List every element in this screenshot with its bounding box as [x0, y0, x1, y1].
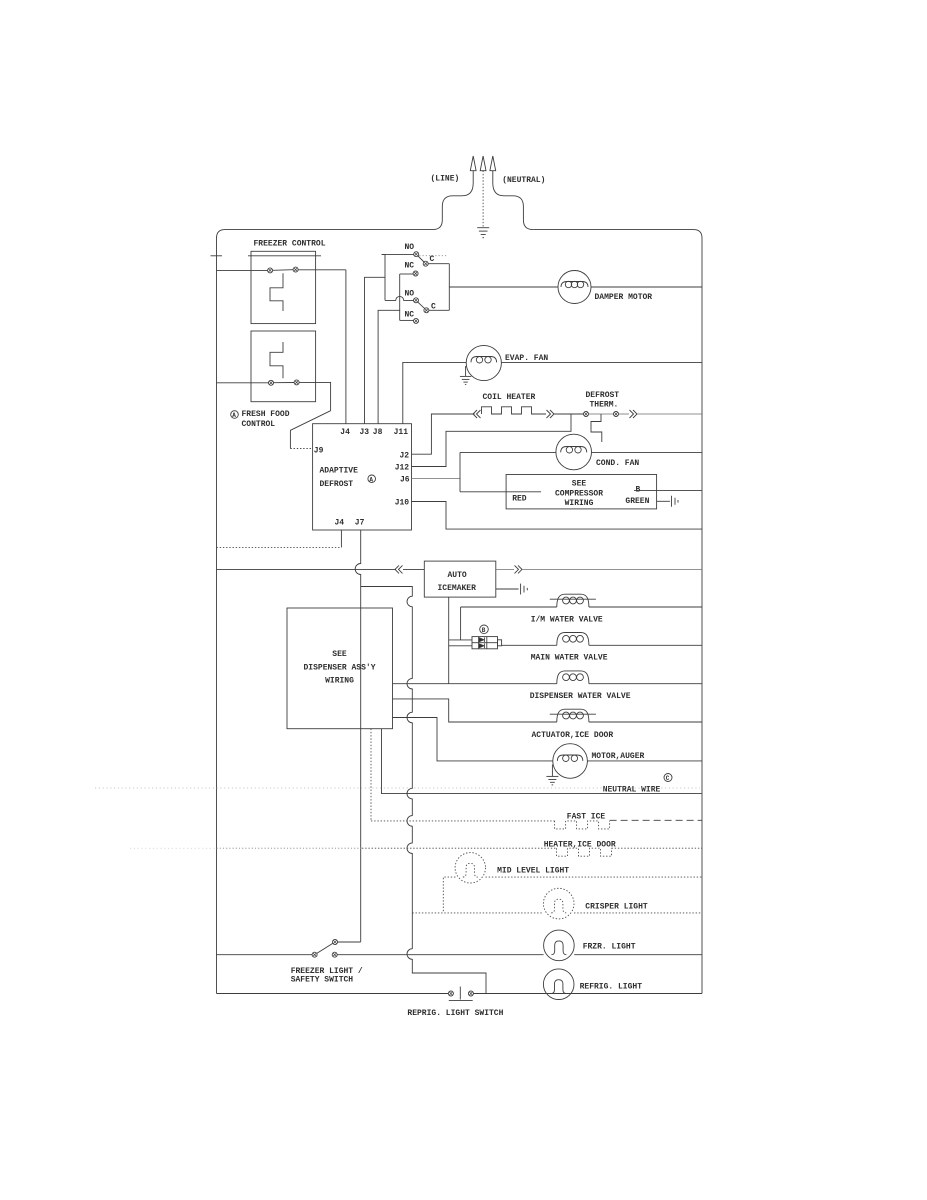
dispenser assembly box — [287, 608, 393, 729]
refrig light switch plunger — [449, 987, 473, 1001]
wire: dispenser valve to right border — [589, 683, 702, 685]
wire: actuator to right border — [589, 721, 702, 723]
damper switch 2 NC contact — [414, 318, 419, 323]
wire: B terminal to right border — [634, 489, 702, 491]
wire: J10 to bottom bus — [412, 502, 703, 530]
defrost thermostat contact left — [584, 412, 589, 417]
circled C neutral — [664, 774, 672, 783]
svg-text:A: A — [369, 477, 373, 484]
wire: switch block feed vertical x=385 — [382, 255, 385, 301]
wire segment after chevrons to border — [638, 413, 703, 415]
svg-text:J3: J3 — [360, 428, 370, 437]
defrost thermostat contact right — [614, 412, 619, 417]
wire: mid level light dotted to right border — [486, 876, 703, 878]
svg-text:DISPENSER ASS'Y: DISPENSER ASS'Y — [304, 664, 376, 673]
svg-text:(LINE): (LINE) — [431, 175, 460, 184]
svg-text:J12: J12 — [395, 463, 410, 472]
wire: diode output to main valve line — [502, 644, 557, 646]
svg-text:FRZR. LIGHT: FRZR. LIGHT — [583, 943, 636, 952]
wire: freezer lamp to right border — [574, 954, 702, 956]
wire: NC2 lead — [400, 319, 414, 321]
wire: chevrons to icemaker box — [403, 568, 424, 570]
wire: C1 to right bus — [428, 263, 449, 265]
green chassis ground — [672, 496, 679, 507]
actuator ice door coil L4 — [550, 709, 596, 722]
wire: defrost thermostat to right border — [619, 413, 630, 415]
defrost out connector chevrons — [630, 410, 638, 418]
freezer light safety switch lower left contact — [312, 952, 317, 957]
wire: switch to freezer light lamp — [337, 954, 543, 956]
refrig light switch right contact — [468, 991, 473, 996]
freezer light safety switch arm — [317, 943, 333, 953]
wire: main valve to right border — [589, 644, 702, 646]
wire: motor auger to right border — [587, 760, 702, 762]
wire: crisper dotted to right border — [574, 912, 702, 914]
svg-text:J10: J10 — [395, 498, 410, 507]
mid level light lamp dotted — [455, 853, 485, 883]
wire: junction to RED compressor lead — [460, 491, 541, 493]
power plug: ground prong arrow — [480, 156, 486, 228]
wire: J11 riser to evap fan line — [403, 362, 466, 423]
outer border top-left segment — [217, 230, 433, 994]
outer border bottom wire (refrig light circuit) — [217, 993, 703, 995]
damper switch 1 NC contact — [413, 271, 418, 276]
svg-text:A: A — [232, 412, 236, 419]
svg-text:ICEMAKER: ICEMAKER — [438, 584, 477, 593]
svg-text:J8: J8 — [373, 428, 383, 437]
svg-text:FREEZER CONTROL: FREEZER CONTROL — [254, 239, 326, 248]
svg-text:J2: J2 — [400, 451, 410, 460]
damper switch 1 C contact — [423, 261, 428, 266]
outer border top-right segment — [533, 230, 702, 994]
coil heater left connector chevrons — [473, 410, 481, 418]
wire: heater ice door dotted to right border — [612, 847, 703, 849]
dispenser water valve coil L3 — [557, 671, 589, 684]
svg-text:WIRING: WIRING — [565, 499, 594, 508]
svg-text:CONTROL: CONTROL — [242, 420, 276, 429]
wire: mid level light dotted feed — [443, 877, 455, 913]
auto icemaker box — [424, 561, 496, 597]
wire: fast ice dotted feed — [371, 820, 555, 822]
svg-text:COIL HEATER: COIL HEATER — [483, 393, 536, 402]
wire: J6 lead — [412, 478, 461, 480]
wire: fast ice dashed to right border — [610, 819, 702, 821]
svg-text:DAMPER MOTOR: DAMPER MOTOR — [595, 293, 653, 302]
wire: damper motor to right border — [591, 286, 702, 288]
wire: diode bottom feed — [449, 645, 472, 647]
tick on left border — [211, 255, 223, 257]
svg-text:J7: J7 — [355, 519, 365, 528]
wire: crisper dotted line — [412, 912, 543, 914]
wire: C2 to right bus — [429, 309, 449, 311]
circled A fresh food — [231, 411, 239, 420]
I/M water valve coil L1 — [550, 594, 596, 607]
freezer light safety switch lower right contact — [332, 952, 337, 957]
wire: J12 to heater output junction — [412, 414, 572, 467]
freezer control switch arm — [273, 269, 294, 272]
power plug: neutral prong arrow — [490, 156, 533, 230]
wire: icemaker bottom pin down to dispenser valve line — [448, 597, 450, 684]
wire: left border to fresh food switch — [217, 382, 269, 384]
wire: GREEN lead — [657, 500, 670, 502]
circled B diode — [480, 625, 489, 634]
svg-text:THERM.: THERM. — [590, 400, 619, 409]
svg-text:C: C — [430, 255, 435, 264]
svg-text:SEE: SEE — [572, 479, 587, 488]
svg-text:C: C — [666, 775, 670, 782]
svg-text:SAFETY SWITCH: SAFETY SWITCH — [291, 976, 354, 985]
damper switch 2 C contact — [424, 308, 429, 313]
svg-text:FRESH FOOD: FRESH FOOD — [242, 410, 290, 419]
ground at evap fan — [460, 366, 471, 384]
crisper light lamp dotted — [543, 888, 574, 919]
svg-text:AUTO: AUTO — [448, 571, 467, 580]
svg-text:B: B — [482, 627, 486, 634]
svg-text:J4: J4 — [335, 519, 345, 528]
svg-text:REFRIG. LIGHT: REFRIG. LIGHT — [580, 983, 643, 992]
main water valve coil L2 — [557, 633, 589, 646]
icemaker left connector chevrons — [395, 565, 403, 573]
wire: heater ice door dotted feed from left border — [217, 847, 363, 849]
wire: dispenser box output to actuator corner — [393, 699, 557, 722]
wire: I/M water valve line left — [461, 606, 557, 608]
wire: J3 riser up from adaptive defrost — [365, 277, 386, 423]
svg-text:NC: NC — [405, 262, 415, 271]
svg-text:(NEUTRAL): (NEUTRAL) — [502, 176, 545, 185]
wire: icemaker right output — [496, 568, 514, 570]
wire: freezer switch to J4 riser — [298, 269, 346, 271]
circled A adaptive defrost — [368, 475, 376, 484]
svg-text:B: B — [636, 485, 641, 494]
svg-text:REPRIG. LIGHT SWITCH: REPRIG. LIGHT SWITCH — [407, 1009, 503, 1018]
fresh food switch contact right — [294, 380, 299, 385]
wire: dispenser water valve line left — [393, 683, 557, 685]
damper switch 1 NO contact — [414, 252, 419, 257]
freezer light lamp — [544, 930, 575, 961]
compressor wiring box — [506, 475, 656, 509]
diode block D1 — [472, 637, 502, 649]
refrig light lamp — [543, 969, 574, 1000]
svg-text:HEATER,ICE DOOR: HEATER,ICE DOOR — [544, 840, 616, 849]
wire: left border to icemaker line — [217, 568, 397, 570]
fresh food switch arm — [274, 382, 295, 384]
wire: J8 riser and lead to NC link — [378, 310, 400, 423]
coil heater element — [482, 407, 547, 414]
wire: chevrons to right border — [523, 568, 703, 570]
svg-text:COND. FAN: COND. FAN — [596, 459, 639, 468]
freezer control box — [251, 251, 316, 323]
wire: feed to NO1 contact — [385, 253, 414, 255]
svg-text:I/M WATER VALVE: I/M WATER VALVE — [531, 616, 603, 625]
wire: NO2 feed with hop over NC link — [385, 296, 414, 300]
svg-text:C: C — [431, 303, 436, 312]
wire: dispenser box neutral output — [382, 729, 703, 794]
evap fan motor — [466, 345, 501, 380]
fresh food control box — [251, 331, 316, 402]
wire: I/M valve to right border — [589, 606, 702, 608]
svg-text:MID LEVEL LIGHT: MID LEVEL LIGHT — [497, 866, 569, 875]
wire: left border to freezer light switch — [217, 954, 313, 956]
diagonal wire to J9 — [290, 411, 330, 449]
svg-text:EVAP. FAN: EVAP. FAN — [505, 354, 548, 363]
svg-text:J4: J4 — [340, 428, 350, 437]
wire: icemaker ground lead — [496, 588, 519, 590]
svg-text:GREEN: GREEN — [625, 497, 649, 506]
wire: I/M valve branch to diode feed — [460, 607, 462, 640]
coil heater right connector chevrons — [547, 410, 555, 418]
faint dashed stub right of NO1 — [419, 255, 447, 257]
rail line through freezer control box — [248, 255, 321, 257]
svg-text:J9: J9 — [314, 446, 324, 455]
fresh food thermostat staircase — [270, 342, 283, 378]
freezer control thermostat staircase — [270, 273, 283, 311]
svg-text:COMPRESSOR: COMPRESSOR — [555, 489, 603, 498]
svg-text:MOTOR,AUGER: MOTOR,AUGER — [592, 752, 645, 761]
svg-text:CRISPER LIGHT: CRISPER LIGHT — [585, 903, 648, 912]
svg-text:J11: J11 — [394, 428, 409, 437]
heater ice door element dashed — [557, 848, 612, 856]
wire: J9 dotted lead — [290, 448, 312, 450]
defrost thermostat sensing staircase — [591, 414, 602, 442]
svg-text:DISPENSER WATER VALVE: DISPENSER WATER VALVE — [530, 692, 631, 701]
wire: J4 bottom pin to left border — [340, 530, 342, 547]
motor auger M4 — [553, 744, 588, 779]
wire: cond fan to right border — [592, 451, 703, 453]
svg-text:NO: NO — [405, 290, 415, 299]
scan fold artifact line lower — [130, 847, 217, 849]
ground at motor auger — [546, 765, 558, 785]
wire: upper contact to vertical — [338, 941, 361, 943]
wire: switch block right bus — [448, 264, 450, 311]
freezer control switch contact left — [268, 268, 273, 273]
svg-text:MAIN WATER VALVE: MAIN WATER VALVE — [531, 654, 608, 663]
wire: diode top feed — [449, 639, 472, 641]
wire: junction to cond fan — [460, 451, 556, 453]
earth ground symbol below plug — [477, 228, 489, 238]
scan fold artifact line upper — [95, 787, 700, 789]
svg-text:ADAPTIVE: ADAPTIVE — [320, 467, 359, 476]
svg-text:SEE: SEE — [332, 650, 347, 659]
freezer control switch contact right — [293, 267, 298, 272]
wire: J6 junction vertical — [459, 452, 461, 491]
icemaker right connector chevrons — [515, 565, 523, 573]
cond fan motor — [556, 434, 592, 470]
damper motor M1 — [558, 271, 591, 304]
svg-text:NEUTRAL WIRE: NEUTRAL WIRE — [603, 786, 661, 795]
wire: left border to freezer control switch — [217, 269, 268, 271]
fast ice heater element dashed — [555, 821, 610, 829]
svg-text:NC: NC — [405, 310, 415, 319]
wire: NC1 lead to NC link — [400, 273, 413, 275]
wire: fresh food switch right to corner — [299, 382, 331, 410]
power plug: line prong arrow — [433, 156, 477, 230]
damper switch 2 NO contact — [414, 298, 419, 303]
wire: dispenser box output to motor auger — [393, 718, 553, 761]
svg-text:FAST ICE: FAST ICE — [567, 813, 606, 822]
svg-text:DEFROST: DEFROST — [320, 480, 354, 489]
svg-text:DEFROST: DEFROST — [586, 391, 620, 400]
freezer light safety switch upper contact — [333, 940, 338, 945]
svg-text:J6: J6 — [400, 475, 410, 484]
wire: dispenser box fast ice output dashed — [370, 729, 372, 821]
wire: NC link vertical — [399, 274, 401, 320]
wire: heater ice door dotted feed — [362, 847, 557, 849]
wire: J7 bottom pin long vertical with hop — [355, 530, 360, 942]
icemaker chassis ground — [521, 584, 528, 595]
long vertical bus with hops — [361, 587, 486, 994]
fresh food switch contact left — [269, 380, 274, 385]
wire: J2 to coil heater riser — [412, 414, 475, 454]
wire: switch block output to damper motor — [449, 286, 558, 288]
svg-text:FREEZER LIGHT /: FREEZER LIGHT / — [291, 967, 363, 976]
wire: evap fan to right border — [501, 361, 702, 363]
refrig light switch left contact — [448, 991, 453, 996]
svg-text:ACTUATOR,ICE DOOR: ACTUATOR,ICE DOOR — [532, 731, 614, 740]
wire: riser x=345.9 down to adaptive defrost J4 top pin — [345, 270, 347, 424]
svg-text:RED: RED — [512, 495, 527, 504]
svg-text:NO: NO — [405, 243, 415, 252]
wire: heater to defrost thermostat — [554, 413, 584, 415]
adaptive defrost control box — [313, 424, 412, 530]
damper switch 2 arm NO to C — [418, 302, 425, 308]
svg-text:WIRING: WIRING — [325, 677, 354, 686]
wire between thermostat contacts — [589, 413, 614, 415]
damper switch 1 arm NO to C — [418, 256, 424, 262]
